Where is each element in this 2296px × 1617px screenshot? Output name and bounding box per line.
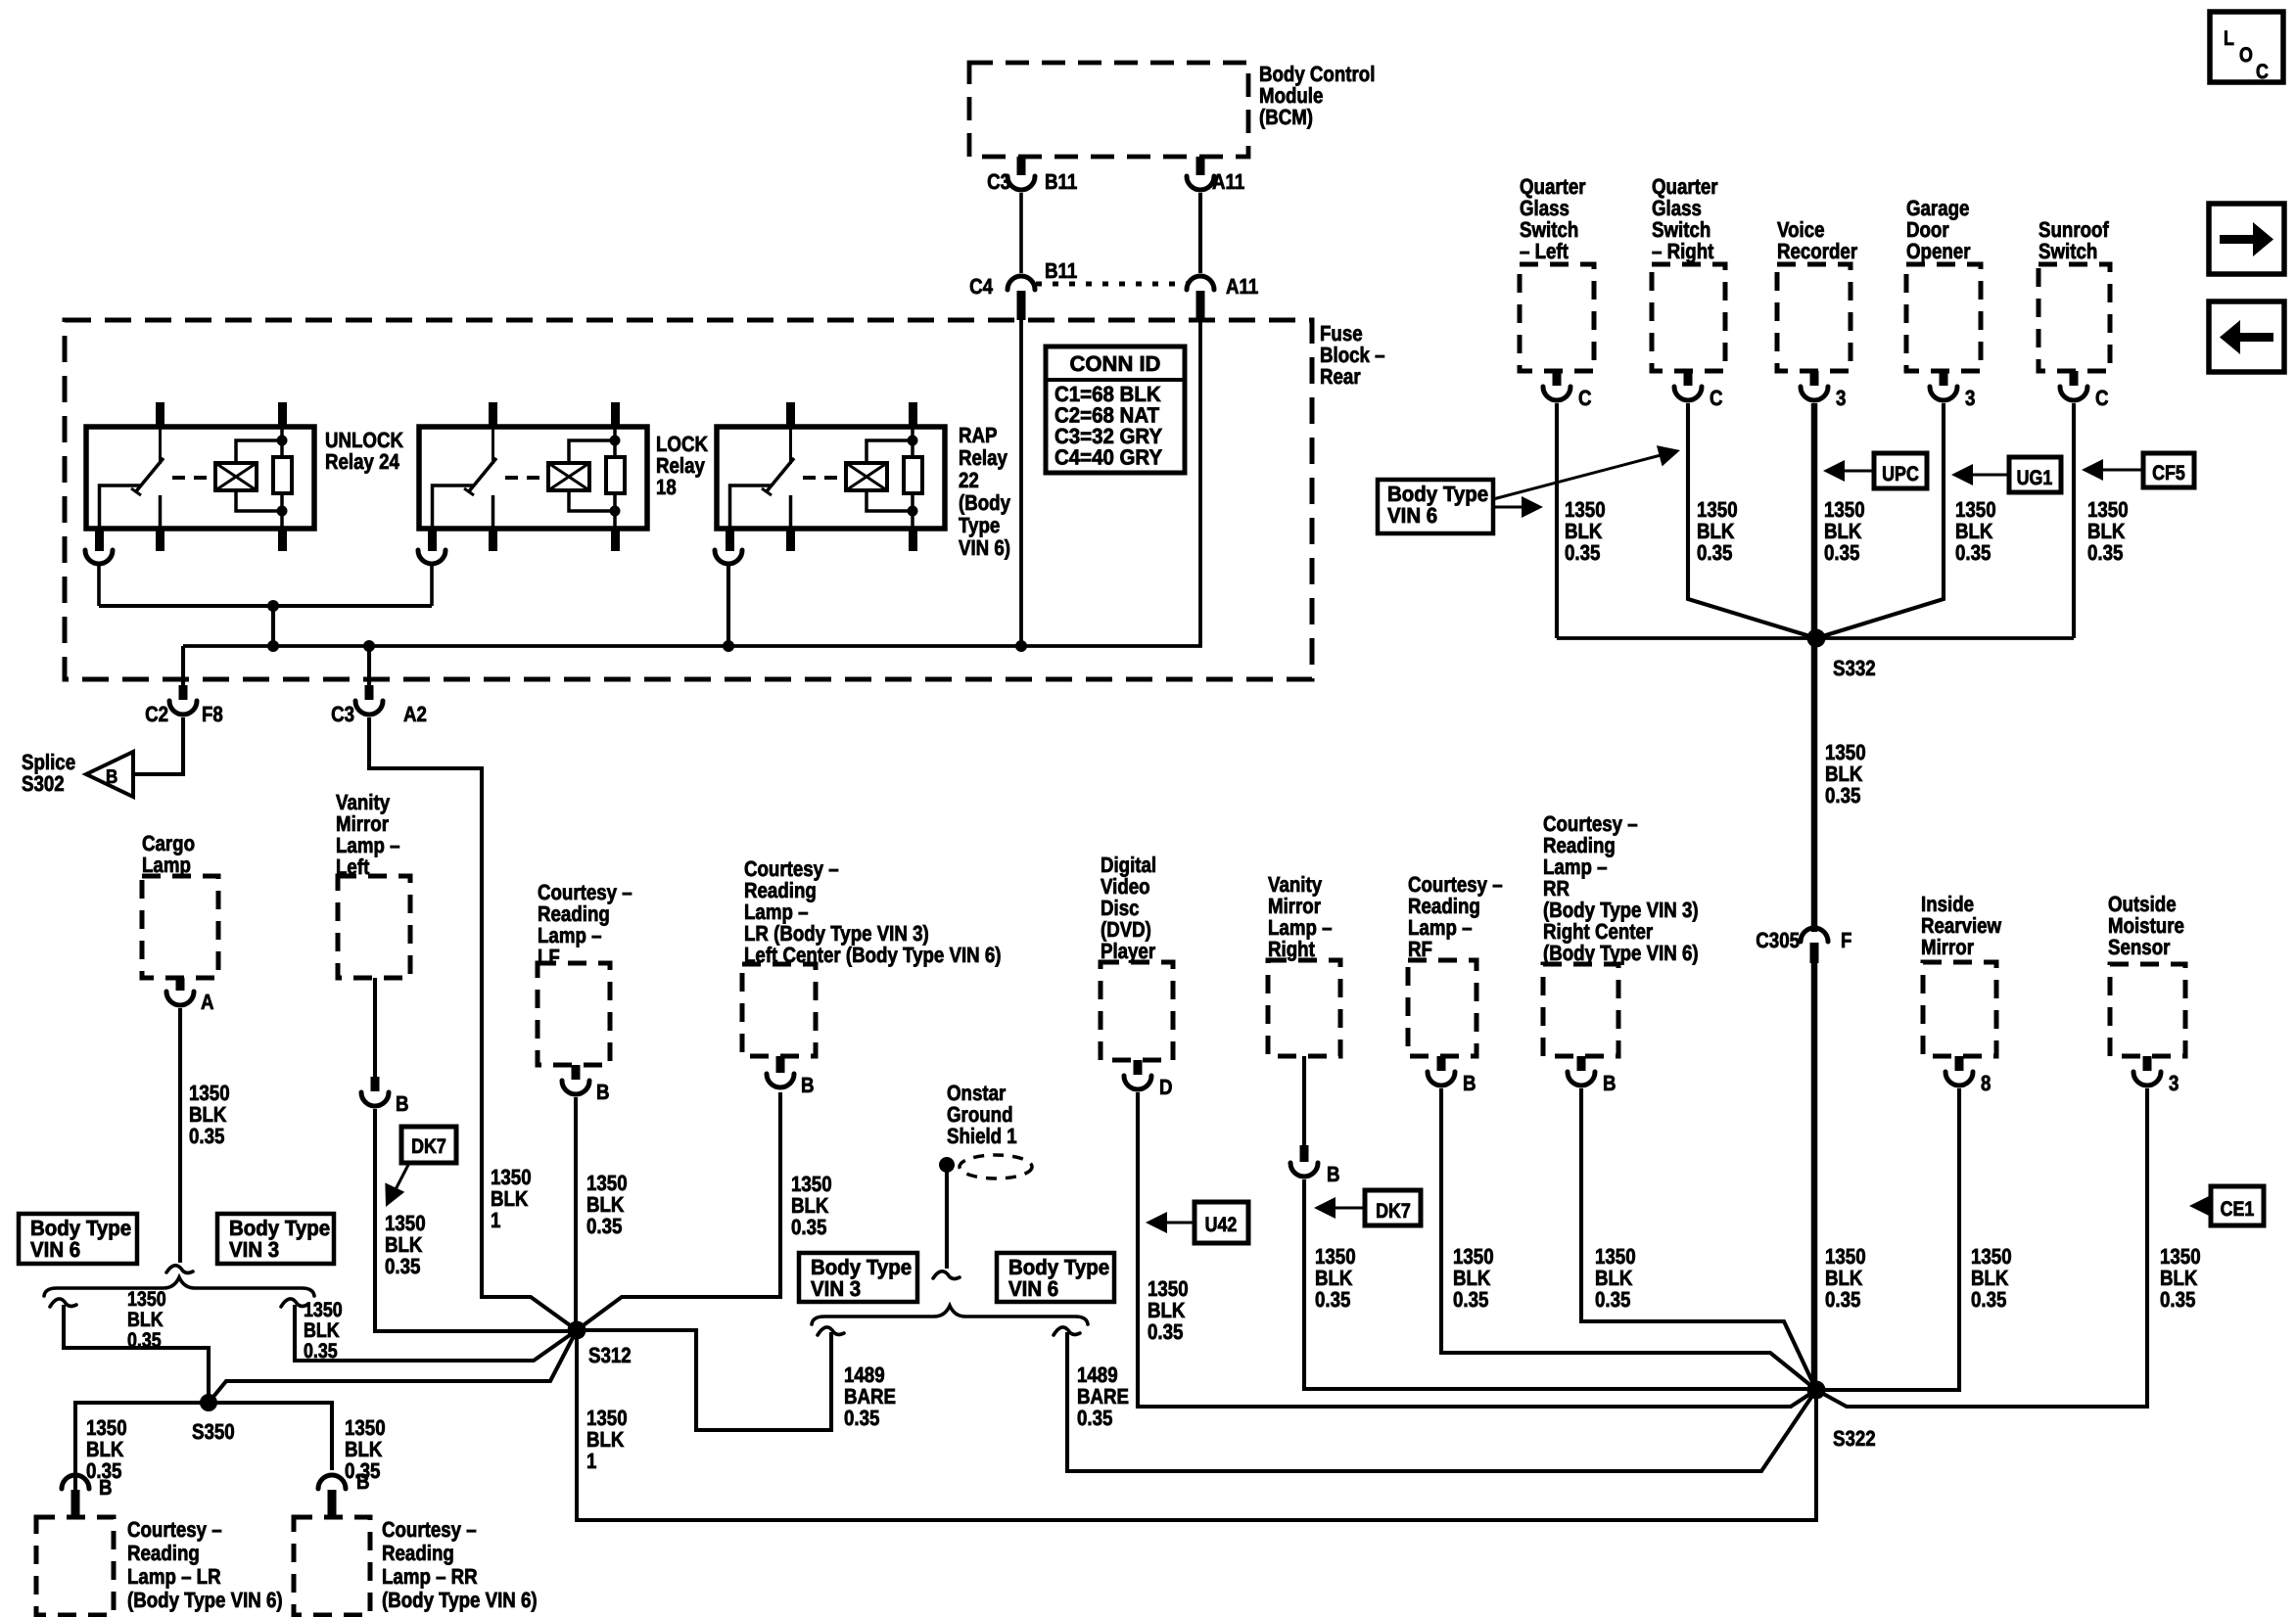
svg-text:0.35: 0.35: [1315, 1287, 1350, 1312]
svg-text:Lamp – RR: Lamp – RR: [382, 1564, 478, 1589]
svg-text:Type: Type: [959, 513, 1000, 537]
svg-text:(Body Type VIN 6): (Body Type VIN 6): [1543, 941, 1699, 965]
svg-text:C305: C305: [1756, 928, 1800, 952]
svg-text:– Right: – Right: [1652, 239, 1714, 263]
svg-text:0.35: 0.35: [1697, 540, 1732, 565]
svg-text:A: A: [201, 990, 214, 1014]
svg-text:Switch: Switch: [2038, 239, 2097, 263]
svg-text:Player: Player: [1101, 939, 1155, 963]
svg-text:C: C: [1578, 386, 1592, 410]
svg-text:RAP: RAP: [959, 423, 998, 447]
svg-text:1: 1: [586, 1449, 596, 1473]
svg-text:BLK: BLK: [127, 1309, 164, 1331]
svg-text:VIN 6): VIN 6): [959, 535, 1010, 560]
svg-text:(Body Type VIN 6): (Body Type VIN 6): [127, 1588, 283, 1612]
svg-text:C: C: [1710, 386, 1723, 410]
svg-text:Rear: Rear: [1320, 364, 1361, 389]
svg-text:3: 3: [1836, 386, 1846, 410]
svg-text:Sensor: Sensor: [2108, 935, 2171, 959]
svg-text:0.35: 0.35: [385, 1254, 420, 1278]
svg-text:3: 3: [2169, 1071, 2179, 1095]
svg-text:Opener: Opener: [1906, 239, 1971, 263]
svg-text:1350: 1350: [304, 1299, 343, 1321]
svg-text:0.35: 0.35: [1595, 1287, 1630, 1312]
svg-text:F: F: [1841, 928, 1851, 952]
svg-text:S312: S312: [588, 1343, 632, 1367]
svg-text:Reading: Reading: [127, 1541, 200, 1565]
svg-text:0.35: 0.35: [1453, 1287, 1488, 1312]
svg-text:A11: A11: [1212, 169, 1244, 194]
svg-text:(BCM): (BCM): [1259, 105, 1313, 129]
svg-text:DK7: DK7: [411, 1135, 446, 1158]
svg-text:8: 8: [1981, 1071, 1991, 1095]
svg-text:0.35: 0.35: [2160, 1287, 2195, 1312]
svg-text:C2: C2: [145, 702, 168, 726]
svg-text:0.35: 0.35: [189, 1124, 224, 1148]
svg-text:0.35: 0.35: [1955, 540, 1991, 565]
svg-text:CF5: CF5: [2152, 462, 2185, 485]
svg-text:Right: Right: [1268, 937, 1315, 961]
svg-text:0.35: 0.35: [1565, 540, 1600, 565]
svg-text:Shield 1: Shield 1: [947, 1124, 1017, 1148]
svg-text:3: 3: [1965, 386, 1975, 410]
svg-text:(Body Type VIN 6): (Body Type VIN 6): [382, 1588, 538, 1612]
svg-text:B: B: [99, 1475, 113, 1500]
svg-text:B: B: [801, 1073, 815, 1097]
svg-text:S302: S302: [22, 771, 65, 796]
svg-text:B: B: [1463, 1071, 1476, 1095]
svg-text:0.35: 0.35: [127, 1329, 162, 1352]
svg-text:B11: B11: [1045, 258, 1077, 283]
svg-text:1: 1: [491, 1208, 500, 1232]
svg-text:U42: U42: [1205, 1214, 1238, 1236]
svg-text:Relay 24: Relay 24: [325, 449, 400, 474]
svg-text:C3: C3: [331, 702, 354, 726]
svg-text:– Left: – Left: [1520, 239, 1569, 263]
svg-text:VIN 6: VIN 6: [1008, 1276, 1058, 1301]
svg-text:0.35: 0.35: [1825, 1287, 1860, 1312]
svg-text:1350: 1350: [127, 1288, 166, 1311]
svg-text:C: C: [2256, 61, 2269, 83]
svg-text:VIN 6: VIN 6: [1387, 503, 1437, 528]
svg-text:RF: RF: [1408, 937, 1432, 961]
svg-text:B11: B11: [1045, 169, 1077, 194]
svg-text:A11: A11: [1226, 274, 1258, 299]
svg-text:0.35: 0.35: [586, 1214, 622, 1238]
svg-text:CE1: CE1: [2221, 1198, 2255, 1221]
svg-text:D: D: [1159, 1075, 1173, 1099]
svg-text:C4: C4: [969, 274, 994, 299]
svg-text:A2: A2: [403, 702, 427, 726]
svg-text:B: B: [1603, 1071, 1617, 1095]
svg-text:CONN ID: CONN ID: [1070, 351, 1161, 376]
svg-text:0.35: 0.35: [2087, 540, 2123, 565]
svg-text:Reading: Reading: [382, 1541, 454, 1565]
svg-text:0.35: 0.35: [1971, 1287, 2006, 1312]
svg-text:18: 18: [656, 475, 677, 499]
svg-text:VIN 3: VIN 3: [811, 1276, 861, 1301]
svg-text:S332: S332: [1833, 656, 1876, 680]
svg-text:Lamp: Lamp: [142, 853, 191, 877]
svg-text:0.35: 0.35: [304, 1340, 338, 1363]
svg-text:0.35: 0.35: [791, 1215, 826, 1239]
svg-text:L: L: [2224, 27, 2234, 50]
svg-text:VIN 3: VIN 3: [229, 1237, 279, 1262]
svg-text:BLK: BLK: [304, 1319, 340, 1342]
svg-text:C: C: [2095, 386, 2109, 410]
svg-text:Relay: Relay: [959, 445, 1008, 470]
svg-text:DK7: DK7: [1376, 1200, 1411, 1223]
svg-text:Recorder: Recorder: [1777, 239, 1857, 263]
svg-text:F8: F8: [202, 702, 223, 726]
svg-text:B: B: [356, 1469, 370, 1494]
svg-text:0.35: 0.35: [1077, 1406, 1112, 1430]
svg-text:S322: S322: [1833, 1426, 1876, 1451]
svg-text:B: B: [396, 1091, 409, 1116]
svg-text:Lamp – LR: Lamp – LR: [127, 1564, 221, 1589]
svg-text:B: B: [596, 1080, 610, 1104]
svg-text:C4=40 GRY: C4=40 GRY: [1054, 445, 1162, 470]
svg-text:UPC: UPC: [1882, 463, 1919, 485]
svg-text:B: B: [1327, 1162, 1340, 1186]
svg-text:22: 22: [959, 468, 979, 492]
svg-text:0.35: 0.35: [1825, 783, 1860, 808]
svg-text:0.35: 0.35: [1824, 540, 1859, 565]
svg-text:Courtesy –: Courtesy –: [382, 1517, 477, 1542]
svg-text:O: O: [2239, 44, 2253, 67]
svg-text:0.35: 0.35: [1148, 1319, 1183, 1344]
svg-text:B: B: [106, 766, 117, 788]
svg-text:0.35: 0.35: [844, 1406, 879, 1430]
svg-text:Mirror: Mirror: [1921, 935, 1974, 959]
svg-text:VIN 6: VIN 6: [30, 1237, 80, 1262]
svg-text:UG1: UG1: [2017, 467, 2053, 489]
svg-text:Courtesy –: Courtesy –: [127, 1517, 222, 1542]
svg-text:(Body: (Body: [959, 490, 1011, 515]
svg-text:C3: C3: [987, 169, 1010, 194]
svg-text:S350: S350: [192, 1419, 235, 1444]
